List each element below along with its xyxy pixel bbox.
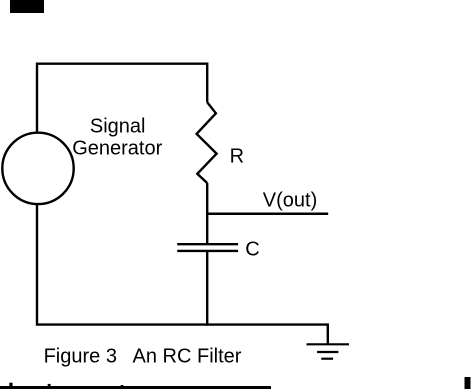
signal generator source circle <box>2 133 73 204</box>
capacitor C bottom plate <box>177 250 238 252</box>
svg-text:R: R <box>230 146 244 168</box>
artifact: bottom-left black bar <box>0 386 271 389</box>
cut-off serif text fragment: top of letter t <box>121 385 124 389</box>
svg-text:V(out): V(out) <box>263 189 317 211</box>
cut-off serif text fragment: ascender of letter l <box>48 384 51 389</box>
ground bar 1 (widest) <box>307 343 350 345</box>
ground bar 3 (shortest) <box>321 358 333 360</box>
svg-text:Figure 3 An RC Filter: Figure 3 An RC Filter <box>44 345 242 367</box>
ground bar 2 (middle) <box>317 351 338 353</box>
wire from signal generator bottom, bottom-left corner, bottom rail, to ground stub <box>37 204 328 344</box>
artifact: top-left black bar <box>10 0 44 13</box>
wire from resistor bottom through V(out) junction to capacitor top plate <box>206 183 208 244</box>
resistor R zigzag <box>197 102 217 183</box>
svg-text:C: C <box>245 239 259 261</box>
wire from capacitor bottom plate down to bottom rail <box>206 251 208 326</box>
svg-text:Signal: Signal <box>90 116 146 138</box>
node V(out): horizontal output wire <box>206 213 328 216</box>
capacitor C top plate <box>177 243 238 245</box>
artifact: bottom-right black mark <box>465 377 471 389</box>
cut-off serif text fragment: dot of letter i <box>9 383 12 387</box>
wire from signal generator top, top-left corner, top horizontal, down to resistor top <box>37 64 207 133</box>
svg-text:Generator: Generator <box>72 137 162 159</box>
